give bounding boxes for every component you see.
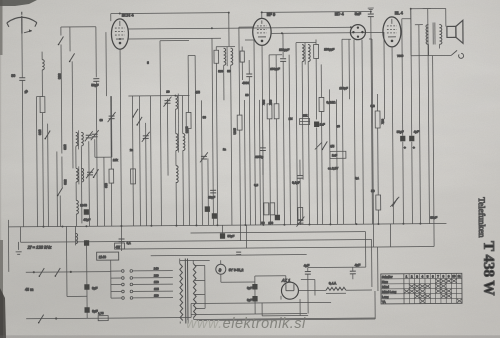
svg-text:50pF: 50pF bbox=[228, 234, 235, 238]
svg-text:50: 50 bbox=[227, 69, 231, 73]
svg-text:4/5: 4/5 bbox=[195, 90, 200, 94]
svg-text:TA: TA bbox=[382, 300, 386, 304]
svg-text:11: 11 bbox=[458, 274, 461, 278]
svg-text:4W: 4W bbox=[116, 245, 121, 249]
svg-text:100pF: 100pF bbox=[339, 86, 348, 90]
svg-text:50μF: 50μF bbox=[397, 130, 404, 134]
svg-text:3: 3 bbox=[416, 275, 418, 279]
svg-text:Mittel: Mittel bbox=[382, 285, 389, 289]
svg-text:30: 30 bbox=[100, 118, 104, 122]
svg-text:150: 150 bbox=[154, 280, 159, 284]
svg-text:550: 550 bbox=[57, 73, 61, 79]
svg-text:100μμF: 100μμF bbox=[270, 67, 280, 71]
svg-text:5: 5 bbox=[147, 61, 149, 65]
svg-text:Kurz: Kurz bbox=[382, 280, 389, 284]
svg-text:ϑ: ϑ bbox=[219, 268, 222, 273]
svg-text:550: 550 bbox=[218, 69, 223, 73]
svg-text:50: 50 bbox=[371, 189, 375, 193]
svg-text:110: 110 bbox=[154, 294, 159, 298]
svg-text:10k: 10k bbox=[113, 158, 118, 162]
svg-text:1,75: 1,75 bbox=[98, 311, 104, 315]
svg-text:30: 30 bbox=[11, 74, 15, 78]
svg-text:2M: 2M bbox=[289, 117, 294, 121]
svg-text:40: 40 bbox=[23, 89, 29, 95]
svg-text:4μF: 4μF bbox=[355, 263, 361, 267]
svg-text:5: 5 bbox=[427, 274, 429, 278]
svg-text:5nF: 5nF bbox=[355, 12, 362, 16]
svg-text:30k: 30k bbox=[381, 119, 385, 124]
svg-text:1MΩ: 1MΩ bbox=[233, 128, 237, 135]
svg-text:100: 100 bbox=[268, 221, 273, 225]
svg-text:4000p: 4000p bbox=[255, 155, 264, 159]
svg-text:50k: 50k bbox=[261, 100, 265, 105]
svg-text:4/5: 4/5 bbox=[330, 144, 335, 148]
svg-text:0,1: 0,1 bbox=[355, 176, 359, 180]
svg-text:1nF: 1nF bbox=[332, 153, 337, 157]
svg-text:0,1μF: 0,1μF bbox=[292, 181, 300, 185]
svg-text:0,3MΩ: 0,3MΩ bbox=[326, 100, 336, 104]
svg-text:550: 550 bbox=[38, 130, 42, 136]
svg-text:9: 9 bbox=[448, 274, 450, 278]
svg-text:110: 110 bbox=[104, 183, 108, 188]
svg-text:50pF: 50pF bbox=[430, 216, 437, 220]
svg-text:2n: 2n bbox=[130, 148, 134, 152]
svg-text:4μF: 4μF bbox=[414, 130, 419, 134]
svg-text:4: 4 bbox=[421, 275, 423, 279]
svg-text:8Y 9-51,2: 8Y 9-51,2 bbox=[229, 268, 244, 272]
svg-text:530: 530 bbox=[63, 179, 67, 185]
svg-text:8μF: 8μF bbox=[247, 298, 252, 302]
svg-text:4000: 4000 bbox=[242, 81, 249, 85]
svg-text:1nF: 1nF bbox=[320, 122, 325, 126]
svg-text:ED 4: ED 4 bbox=[335, 11, 345, 16]
svg-text:50pF: 50pF bbox=[91, 83, 98, 87]
svg-text:240: 240 bbox=[154, 267, 159, 271]
svg-text:Telefunken: Telefunken bbox=[477, 197, 487, 238]
svg-text:Zf = 128 kHz: Zf = 128 kHz bbox=[27, 245, 53, 250]
svg-text:8: 8 bbox=[443, 274, 445, 278]
svg-text:1: 1 bbox=[406, 275, 408, 279]
svg-text:7000: 7000 bbox=[397, 54, 404, 58]
svg-text:1n: 1n bbox=[223, 147, 227, 151]
svg-text:30: 30 bbox=[203, 115, 207, 119]
svg-text:10: 10 bbox=[452, 274, 456, 278]
svg-text:100μμF: 100μμF bbox=[324, 47, 334, 51]
svg-text:+: + bbox=[413, 146, 415, 150]
svg-text:45 m: 45 m bbox=[25, 288, 33, 292]
svg-text:5060: 5060 bbox=[185, 126, 189, 133]
svg-text:50k: 50k bbox=[303, 114, 308, 118]
svg-text:50: 50 bbox=[337, 124, 341, 128]
svg-text:7: 7 bbox=[437, 274, 439, 278]
svg-text:8μF: 8μF bbox=[247, 286, 252, 290]
svg-text:220: 220 bbox=[154, 274, 159, 278]
svg-text:0,4 A: 0,4 A bbox=[329, 281, 337, 285]
svg-text:50: 50 bbox=[245, 93, 249, 97]
svg-text:6: 6 bbox=[432, 274, 434, 278]
svg-text:30k: 30k bbox=[268, 100, 272, 105]
svg-text:530: 530 bbox=[63, 144, 67, 150]
svg-text:5943: 5943 bbox=[80, 203, 87, 207]
svg-text:Mittel-Lang: Mittel-Lang bbox=[382, 290, 397, 294]
svg-text:0,3: 0,3 bbox=[370, 104, 375, 108]
svg-text:0,1: 0,1 bbox=[127, 241, 132, 245]
svg-text:2: 2 bbox=[411, 275, 413, 279]
svg-text:+: + bbox=[404, 146, 406, 150]
svg-text:20: 20 bbox=[166, 90, 170, 94]
svg-text:4μF: 4μF bbox=[304, 264, 310, 268]
svg-text:8μF: 8μF bbox=[92, 309, 98, 313]
svg-text:EL 4: EL 4 bbox=[395, 10, 404, 15]
svg-text:125: 125 bbox=[154, 287, 159, 291]
svg-text:Schalter: Schalter bbox=[382, 275, 393, 279]
svg-text:0,5: 0,5 bbox=[254, 183, 258, 187]
svg-text:50pF: 50pF bbox=[208, 195, 215, 199]
svg-text:T 438 W: T 438 W bbox=[480, 241, 496, 296]
svg-text:1146: 1146 bbox=[99, 255, 106, 259]
svg-text:180μμF: 180μμF bbox=[279, 48, 289, 52]
svg-text:Lang: Lang bbox=[382, 295, 389, 299]
svg-text:8μF: 8μF bbox=[92, 286, 98, 290]
